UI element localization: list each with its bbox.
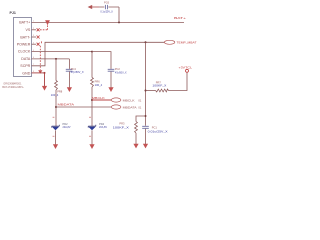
node junction PR3 [145,115,147,117]
wire DATA row [32,58,70,60]
off-page oval MBCLK [111,98,121,102]
svg-text:BATT+: BATT+ [19,21,30,25]
svg-text:01: 01 [138,98,141,102]
capacitor PC6 plates [105,5,107,9]
capacitor PC1 plates [142,126,149,128]
ground arrow PD2 [53,144,58,149]
wire PC1 to ground [145,129,147,144]
svg-text:47p/50V_X: 47p/50V_X [71,70,84,74]
svg-text:GND: GND [22,71,30,75]
svg-text:0.01u/25V_X: 0.01u/25V_X [148,130,168,134]
svg-text:20A,8V: 20A,8V [99,125,107,129]
dashed line POWER to GND [39,46,41,70]
svg-text:VS: VS [26,28,31,32]
wire MBCLK [92,99,111,101]
zener diode PD2 [52,125,60,128]
svg-text:SCPR: SCPR [20,64,30,68]
svg-text:CLOCK: CLOCK [18,50,31,54]
svg-text:PR7: PR7 [156,80,162,84]
wire POWER stub [32,43,37,45]
resistor PR7 [156,89,169,92]
tick mark a [41,41,43,43]
wire PR3 branch [136,116,146,122]
svg-text:MBCLK: MBCLK [92,96,105,100]
wire column PR8 lower [55,90,57,126]
wire MBDATA [56,106,111,108]
node junction MBDATA left [55,106,57,108]
svg-text:POWER: POWER [17,43,31,47]
ground arrow PC2 [108,87,113,92]
ground arrow PC1 [143,144,148,149]
wire PC2 to ground [110,72,112,88]
node junction PR7 [145,90,147,92]
connector PJ1 body [14,18,32,77]
wire PC4 to ground [68,72,70,88]
svg-text:BATT-: BATT- [20,35,31,39]
wire CLOCK branch to PC2 [92,52,111,69]
wire DATA branch to PC4 [68,59,70,69]
svg-text:PR8: PR8 [57,89,63,93]
svg-text:100KF_X: 100KF_X [152,84,166,88]
node junction TEMP [145,41,147,43]
off-page oval MBDATA [111,105,121,109]
node junction on BATT row [118,21,120,23]
svg-text:PR6: PR6 [95,80,101,84]
wire column PR6 upper [91,52,93,78]
svg-text:01: 01 [138,105,141,109]
no-connect X on BATT- [37,36,40,39]
svg-text:100KF_X: 100KF_X [113,125,129,129]
svg-text:100_4: 100_4 [95,83,103,87]
capacitor PC4 plates [66,69,73,71]
resistor PR8 [55,81,58,91]
svg-text:20A,8V: 20A,8V [63,125,71,129]
node junction MBCLK [91,99,93,101]
svg-text:PJ1: PJ1 [10,11,16,15]
ground arrow GND pin [42,86,47,91]
resistor PR6 [91,78,94,88]
wire VS stub [32,29,37,31]
off-page arrow left [91,6,99,8]
wire column PR8 upper [55,59,57,81]
svg-text:+3VTCL: +3VTCL [179,66,193,70]
wire GND row [32,72,45,74]
ground arrow PC4 [67,87,72,92]
svg-text:DATA: DATA [21,57,31,61]
no-connect X on VS [37,28,40,31]
svg-text:PR3: PR3 [119,121,125,125]
svg-text:BAT+: BAT+ [174,16,186,20]
svg-text:47p/50V_X: 47p/50V_X [115,71,127,75]
dashed line arrowhead [38,70,42,73]
svg-text:100_4: 100_4 [51,93,59,97]
wire GND down [44,73,46,86]
svg-text:PC6: PC6 [104,0,110,4]
ground arrow PR3 [133,144,138,149]
svg-text:0.1u/25V_X: 0.1u/25V_X [100,9,113,13]
wire CLOCK row [32,51,93,53]
svg-text:TEMP_MBAT: TEMP_MBAT [177,41,197,45]
dashed link VS to BATT [40,25,48,30]
wire PC6 loop vertical [118,7,120,22]
node junction CLOCK [91,51,93,53]
svg-text:OFN2X0B4R0G1: OFN2X0B4R0G1 [3,81,21,85]
wire PD4 to ground [91,130,93,144]
node junction GND [44,72,46,74]
wire PR7 right to +3VTCL [169,72,188,90]
off-page oval TEMP_MBAT [164,40,174,44]
svg-text:MBCLK: MBCLK [123,98,135,102]
zener diode PD4 [88,125,96,128]
svg-text:MBDATA: MBDATA [123,105,137,109]
resistor PR3 [135,122,138,134]
wire PC6 loop top [99,6,119,8]
wire BATT- stub [32,36,37,38]
power symbol +3VTCL circle [186,69,189,72]
wire TEMP column [145,42,147,126]
capacitor PC2 plates [108,69,115,71]
svg-text:BAT-174049-2-BP-L: BAT-174049-2-BP-L [2,85,24,89]
wire PR3 to ground [135,133,137,144]
wire SCPR row to TEMP line [32,42,165,66]
ground arrow PD4 [89,144,94,149]
wire PD2 to ground [55,130,57,144]
wire column PR6 lower [91,87,93,126]
arrow on BATT row [45,20,50,25]
wire PR7 left [146,90,156,92]
no-connect X on POWER [37,43,40,46]
svg-text:MBDATA: MBDATA [58,102,75,106]
svg-text:PC1: PC1 [152,125,158,129]
wire BATT+ row [32,21,185,23]
node junction DATA [55,58,57,60]
